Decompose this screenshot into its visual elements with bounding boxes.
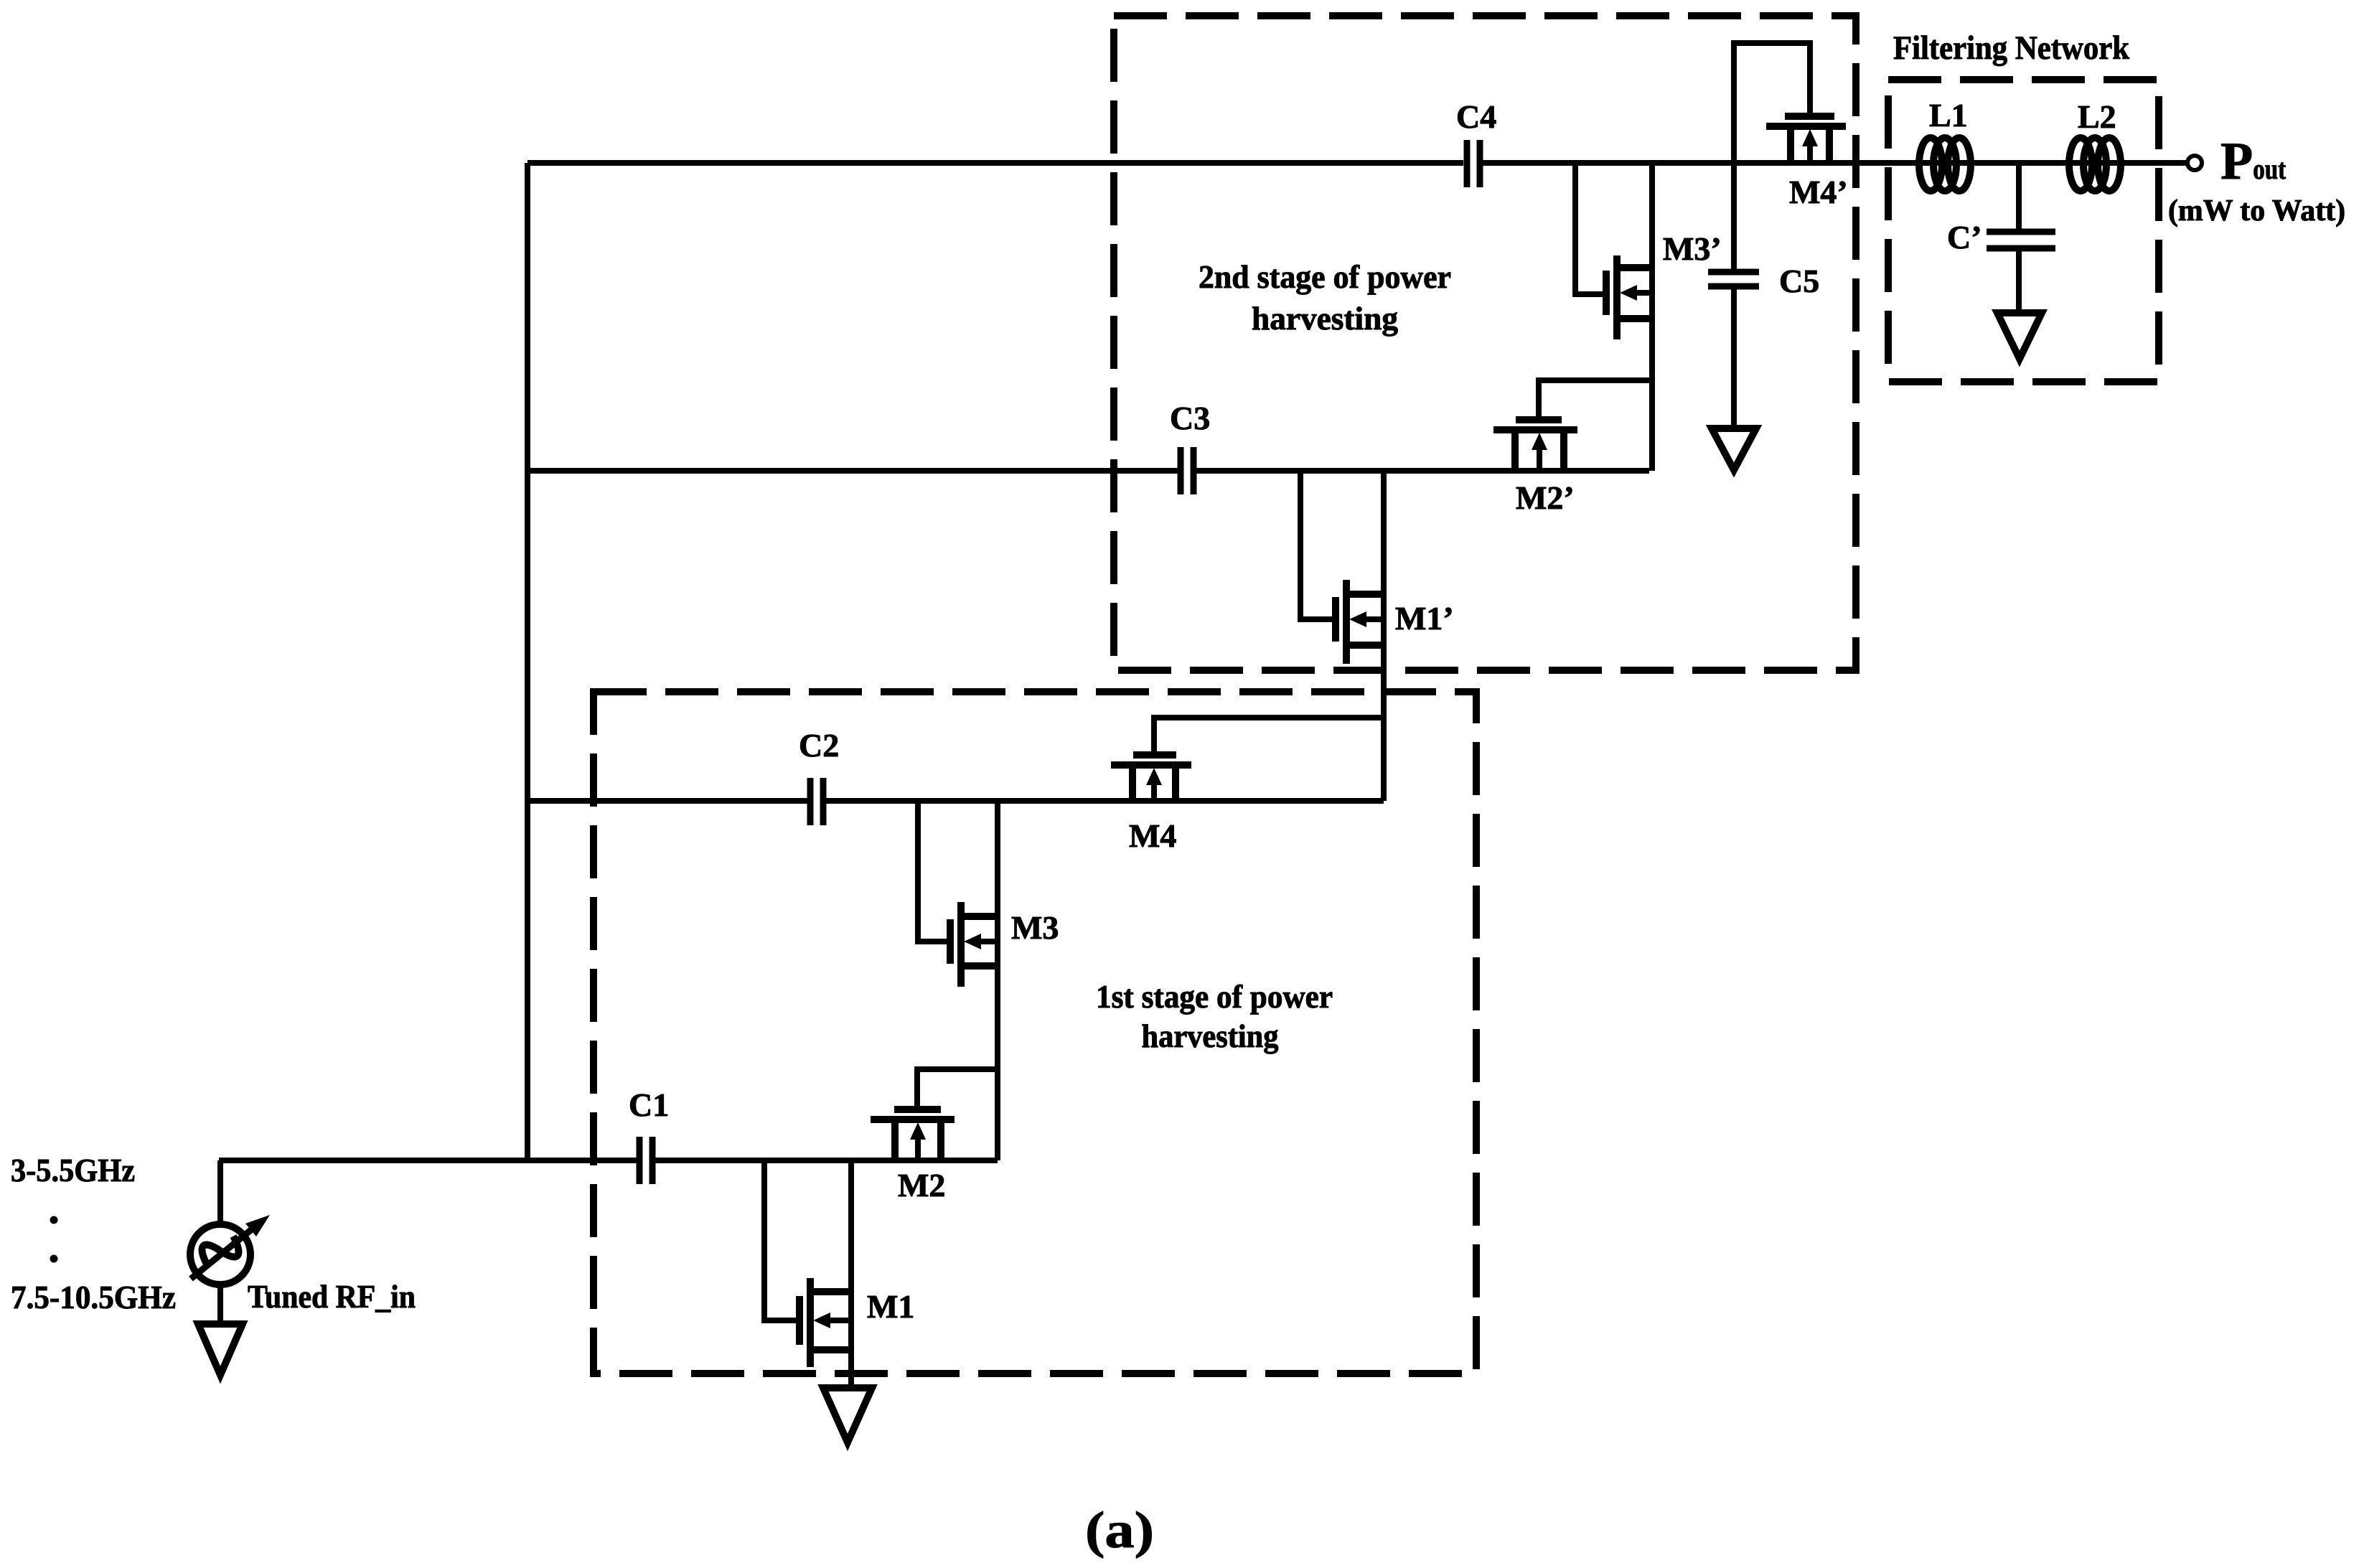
svg-text:M3: M3 [1011,909,1059,946]
svg-text:C’: C’ [1947,219,1982,255]
svg-text:7.5-10.5GHz: 7.5-10.5GHz [11,1279,176,1315]
svg-text:3-5.5GHz: 3-5.5GHz [11,1152,135,1188]
svg-text:M4’: M4’ [1789,174,1848,210]
svg-text:C5: C5 [1779,263,1819,299]
svg-text:C2: C2 [799,727,839,764]
svg-text:Tuned RF_in: Tuned RF_in [248,1278,416,1315]
svg-text:harvesting: harvesting [1142,1018,1279,1054]
svg-text:L1: L1 [1929,97,1968,133]
svg-text:(mW to Watt): (mW to Watt) [2168,194,2345,227]
svg-text:2nd stage of power: 2nd stage of power [1199,258,1451,295]
svg-text:C4: C4 [1456,98,1496,135]
svg-text:L2: L2 [2078,98,2116,135]
svg-text:1st stage of power: 1st stage of power [1096,978,1333,1015]
svg-text:Filtering Network: Filtering Network [1893,29,2130,67]
svg-text:M3’: M3’ [1663,230,1722,267]
svg-text:M2: M2 [898,1167,945,1203]
svg-text:M4: M4 [1129,817,1176,854]
svg-text:C3: C3 [1170,400,1210,436]
svg-text:M1’: M1’ [1395,600,1454,637]
svg-text:harvesting: harvesting [1252,300,1398,337]
svg-text:M2’: M2’ [1516,479,1575,516]
svg-text:C1: C1 [629,1086,669,1123]
svg-text:(a): (a) [1085,1501,1154,1559]
svg-text:M1: M1 [867,1288,914,1325]
